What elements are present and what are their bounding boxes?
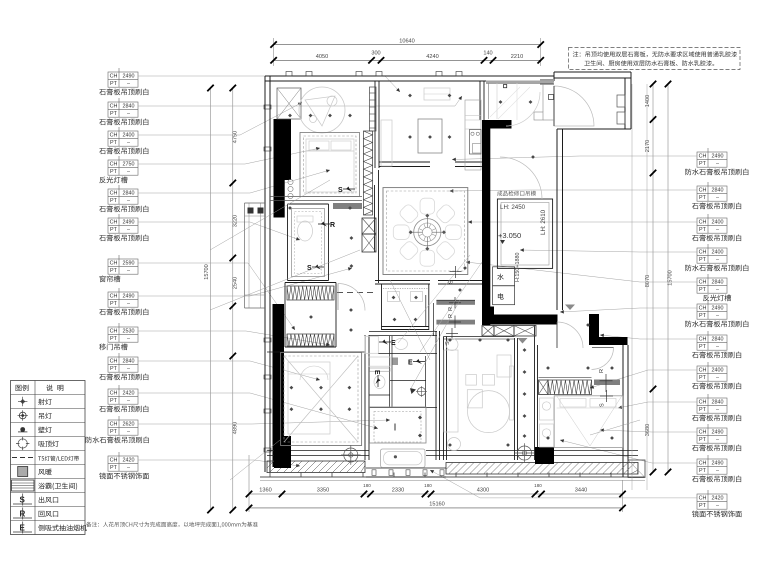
legend symbol air outlet S 出风口: [13, 494, 32, 506]
legend symbol fan heater 风暖: [18, 467, 28, 477]
level triangle corridor: [565, 305, 575, 311]
ceiling tray bedroom1: [300, 133, 360, 197]
svg-text:–: –: [716, 161, 719, 167]
door arc master bath: [592, 348, 614, 370]
svg-text:2490: 2490: [123, 294, 135, 300]
svg-text:2840: 2840: [123, 191, 135, 197]
svg-text:–: –: [127, 169, 130, 175]
svg-text:2490: 2490: [123, 74, 135, 80]
svg-text:E: E: [408, 360, 413, 367]
level triangle hall: [518, 338, 528, 344]
callout right R3 CH 2400 石膏板吊顶刷白: [468, 214, 741, 241]
wall bedroom1/kitchen partition: [375, 81, 379, 168]
svg-text:–: –: [716, 407, 719, 413]
svg-text:CH: CH: [110, 133, 118, 139]
downlights corridor south: [523, 348, 527, 438]
svg-text:PT: PT: [110, 336, 118, 342]
svg-text:2490: 2490: [712, 306, 724, 312]
svg-text:S: S: [338, 187, 343, 194]
fan symbol bath2: [410, 386, 427, 397]
svg-text:–: –: [716, 227, 719, 233]
callout right R9 CH 2840 石膏板吊顶刷白: [618, 394, 741, 421]
svg-text:CH: CH: [699, 400, 707, 406]
svg-text:2750: 2750: [123, 162, 135, 168]
svg-text:3350: 3350: [317, 488, 329, 494]
svg-text:–: –: [716, 195, 719, 201]
utility shafts water electric: [493, 252, 521, 304]
beam gray corridor: [333, 203, 362, 209]
foyer cabinets and door: [489, 83, 555, 126]
dimension left total 15700: [204, 85, 214, 513]
svg-text:PT: PT: [699, 503, 707, 509]
air vent S dining corner: [449, 266, 462, 284]
svg-text:2400: 2400: [712, 220, 724, 226]
shower room with levels: [497, 191, 552, 269]
callout right R7 CH 2840 石膏板吊顶刷白: [600, 331, 741, 358]
svg-text:2490: 2490: [712, 430, 724, 436]
svg-text:–: –: [127, 227, 130, 233]
svg-text:–: –: [716, 503, 719, 509]
callout left L1 CH 2490 石膏板吊顶刷白: [99, 68, 400, 95]
svg-text:E: E: [373, 370, 380, 375]
wall corridor/dining partition: [375, 170, 379, 283]
svg-text:PT: PT: [699, 313, 707, 319]
wall poche left upper: [274, 119, 292, 218]
downlights master: [546, 323, 614, 440]
note box ceiling material note: [569, 48, 741, 70]
downlights kitchen: [408, 94, 451, 139]
svg-text:R: R: [330, 222, 335, 229]
downlight cloakroom: [309, 315, 313, 319]
column xbox corridor a: [362, 218, 376, 234]
wall kitchen/foyer partition: [480, 81, 484, 120]
bed bedroom1: [306, 139, 354, 192]
svg-text:–: –: [127, 301, 130, 307]
wardrobe hatch corridor closet: [364, 131, 373, 215]
svg-text:S: S: [600, 403, 606, 407]
svg-text:CH: CH: [699, 461, 707, 467]
air outlet S bath1: [307, 265, 324, 273]
svg-text:–: –: [716, 468, 719, 474]
plumbing stack circles bath1: [288, 179, 293, 198]
downlights bedroom2: [290, 386, 352, 411]
svg-text:–: –: [127, 198, 130, 204]
wall outer right master: [623, 345, 628, 477]
svg-text:180: 180: [363, 483, 371, 488]
svg-text:CH: CH: [110, 391, 118, 397]
svg-text:CH: CH: [699, 430, 707, 436]
svg-text:–: –: [127, 465, 130, 471]
svg-text:2400: 2400: [123, 133, 135, 139]
svg-text:–: –: [716, 437, 719, 443]
svg-text:+3.050: +3.050: [498, 231, 521, 240]
balcony hatch left: [267, 461, 365, 473]
svg-text:PT: PT: [110, 268, 118, 274]
svg-text:PT: PT: [110, 429, 118, 435]
svg-text:PT: PT: [110, 398, 118, 404]
kitchen counters and tray: [381, 88, 481, 170]
svg-text:180: 180: [534, 483, 542, 488]
svg-text:2540: 2540: [233, 277, 239, 289]
bed bedroom2: [288, 362, 330, 434]
svg-text:CH: CH: [110, 162, 118, 168]
ceiling fan corridor: [515, 443, 535, 463]
dimension right segments 1400/2170/8070/3680: [645, 81, 656, 475]
svg-text:2490: 2490: [712, 461, 724, 467]
svg-text:PT: PT: [699, 375, 707, 381]
downlights foyer: [499, 100, 535, 159]
callout left L11 CH 2420 石膏板吊顶刷白: [99, 385, 378, 429]
callout right R5 CH 2840 反光灯槽: [466, 261, 731, 302]
callout right R10 CH 2490 石膏板吊顶刷白: [600, 424, 741, 451]
column xbox corridor b: [362, 234, 376, 252]
column xbox top-left: [277, 88, 301, 119]
downlights bedroom1: [288, 114, 352, 210]
svg-text:–: –: [127, 336, 130, 342]
svg-text:CH: CH: [699, 368, 707, 374]
svg-text:PT: PT: [110, 81, 118, 87]
legend symbol spotlight 射灯: [18, 397, 27, 406]
dimension bottom segments 1360/3350/2330/4300/3440: [246, 455, 699, 512]
svg-text:PT: PT: [110, 140, 118, 146]
ceiling fan decor bedroom1: [299, 87, 345, 133]
callout left L7 CH 2590 窗帘槽: [100, 255, 295, 330]
svg-text:–: –: [716, 375, 719, 381]
extension line right: [632, 84, 647, 490]
legend symbol wall light 壁灯: [18, 427, 27, 432]
air vent gray bar hall lower: [436, 314, 475, 328]
svg-text:15700: 15700: [668, 270, 674, 286]
svg-text:PT: PT: [699, 437, 707, 443]
legend label 吊灯: [39, 413, 52, 419]
bath2 fixtures: [365, 336, 408, 388]
svg-text:140: 140: [483, 51, 492, 57]
wall kitchen bottom: [379, 162, 482, 167]
callout left L4 CH 2750 反光灯槽: [99, 147, 320, 183]
dimension right total 15700: [665, 81, 674, 475]
svg-text:300: 300: [371, 51, 380, 57]
wardrobe hatch master: [548, 380, 592, 395]
air vents master R S: [599, 369, 613, 407]
legend label 出风口: [39, 497, 58, 503]
svg-text:CH: CH: [699, 337, 707, 343]
balcony middle bay: [366, 468, 446, 477]
svg-text:8070: 8070: [645, 275, 651, 287]
svg-text:PT: PT: [110, 465, 118, 471]
svg-text:–: –: [127, 140, 130, 146]
callout left L3 CH 2400 石膏板吊顶刷白: [99, 103, 302, 155]
svg-text:–: –: [127, 81, 130, 87]
svg-text:CH: CH: [699, 188, 707, 194]
svg-text:CH: CH: [699, 250, 707, 256]
air vent gray bar hall upper: [436, 297, 475, 311]
svg-text:PT: PT: [699, 407, 707, 413]
callout right R11 CH 2490 石膏板吊顶刷白: [560, 439, 741, 482]
lobby pilasters: [617, 95, 625, 124]
remark note bottom: [86, 522, 258, 528]
callout left L2 CH 2840 石膏板吊顶刷白: [99, 96, 462, 125]
callout right R1 CH 2490 防水石膏板吊顶刷白: [452, 148, 748, 175]
svg-text:15700: 15700: [204, 264, 210, 280]
ceiling tray bath1: [292, 209, 325, 277]
legend label 射灯: [38, 399, 52, 405]
svg-text:2490: 2490: [123, 220, 135, 226]
svg-text:2330: 2330: [392, 488, 404, 494]
svg-text:CH: CH: [110, 458, 118, 464]
column xbox master wardrobe: [539, 380, 549, 395]
wall entrance lobby: [540, 72, 631, 129]
svg-text:3220: 3220: [233, 215, 239, 227]
svg-text:PT: PT: [699, 257, 707, 263]
window bay detail left: [245, 203, 266, 308]
callout right R4 CH 2400 防水石膏板吊顶刷白: [520, 244, 748, 271]
svg-text:2840: 2840: [712, 400, 724, 406]
wall living room west and top: [434, 303, 515, 460]
svg-text:2210: 2210: [511, 54, 523, 60]
svg-text:–: –: [716, 313, 719, 319]
wall poche bottom block right: [535, 447, 554, 464]
sliding door dashed corridor: [337, 292, 376, 294]
svg-text:–: –: [127, 429, 130, 435]
svg-text:2840: 2840: [123, 104, 135, 110]
wall interior bottom: [267, 451, 638, 456]
callout left L12 CH 2620 防水石膏板吊顶刷白: [86, 416, 390, 443]
legend symbol pendant light 吊灯: [18, 410, 28, 420]
wall poche left bottom block overlay: [274, 436, 291, 468]
svg-text:CH: CH: [110, 261, 118, 267]
svg-text:2420: 2420: [712, 496, 724, 502]
svg-text:10640: 10640: [399, 39, 415, 45]
svg-text:2590: 2590: [123, 261, 135, 267]
balcony outer edge: [260, 473, 645, 481]
svg-text:LH: 2610: LH: 2610: [540, 209, 547, 235]
svg-text:2840: 2840: [712, 280, 724, 286]
svg-text:4750: 4750: [233, 131, 239, 143]
svg-text:2420: 2420: [123, 458, 135, 464]
wall poche master step: [589, 314, 628, 345]
bed master bedroom: [554, 396, 623, 448]
svg-text:2420: 2420: [123, 391, 135, 397]
svg-text:CH: CH: [699, 496, 707, 502]
closet xbox entry strip: [482, 326, 536, 337]
balcony hatch right: [446, 463, 638, 475]
svg-text:PT: PT: [110, 227, 118, 233]
svg-text:CH: CH: [699, 280, 707, 286]
callout left L10 CH 2840 石膏板吊顶刷白: [99, 353, 320, 381]
air vent S hall: [445, 328, 458, 345]
svg-text:4050: 4050: [316, 54, 328, 60]
dining table chandelier decor: [393, 198, 461, 266]
downlights corridor: [349, 236, 467, 332]
wall poche left lower: [273, 304, 285, 467]
legend symbol T5/LED strip dashed line: [12, 457, 33, 459]
wall cloakroom enclosure: [285, 283, 336, 348]
legend label 侧吸式抽油烟机: [38, 525, 87, 531]
svg-text:CH: CH: [110, 74, 118, 80]
callout left L9 CH 2530 移门吊槽: [99, 323, 330, 350]
svg-text:2490: 2490: [712, 154, 724, 160]
wall living/corridor partitions: [515, 325, 538, 460]
svg-text:PT: PT: [699, 161, 707, 167]
svg-text:CH: CH: [110, 220, 118, 226]
svg-text:PT: PT: [110, 111, 118, 117]
svg-text:–: –: [716, 287, 719, 293]
svg-text:CH: CH: [110, 104, 118, 110]
svg-text:CH: CH: [110, 191, 118, 197]
exhaust E bath2 c: [373, 370, 381, 387]
door arc shower room: [500, 157, 542, 199]
legend label 风暖: [38, 469, 52, 475]
legend label T5灯管/LED灯带: [38, 456, 79, 462]
callout right R8 CH 2400 石膏板吊顶刷白: [590, 362, 741, 389]
svg-text:CH: CH: [699, 220, 707, 226]
wall bedroom1 bottom sliding door trough: [270, 197, 362, 201]
svg-text:–: –: [127, 268, 130, 274]
svg-text:–: –: [716, 344, 719, 350]
svg-text:E: E: [391, 340, 396, 347]
living room furniture: [444, 339, 514, 451]
legend symbol ceiling light 吸顶灯: [16, 437, 29, 450]
callout right R12 CH 2420 镜面不锈钢饰面: [430, 470, 742, 517]
callout left L13 CH 2420 镜面不锈钢饰面: [99, 452, 300, 479]
balcony end pier right: [628, 460, 645, 478]
ceiling fan bedroom2: [341, 445, 361, 465]
svg-text:PT: PT: [699, 468, 707, 474]
wall study room: [382, 284, 429, 330]
callout left L8 CH 2490 石膏板吊顶刷白: [99, 267, 352, 315]
svg-text:R: R: [599, 369, 605, 373]
study fixtures and downlights: [383, 289, 428, 322]
wall poche entry C-shape: [482, 120, 558, 325]
air outlet S corridor top: [338, 187, 355, 195]
svg-text:CH: CH: [110, 294, 118, 300]
svg-text:PT: PT: [699, 287, 707, 293]
svg-text:2840: 2840: [712, 337, 724, 343]
svg-text:–: –: [716, 257, 719, 263]
svg-text:180: 180: [424, 483, 432, 488]
callout right R2 CH 2840 石膏板吊顶刷白: [450, 182, 742, 209]
legend label 壁灯: [38, 427, 52, 433]
svg-text:2620: 2620: [123, 422, 135, 428]
beam gray master: [594, 380, 620, 386]
svg-text:2400: 2400: [712, 368, 724, 374]
svg-text:4890: 4890: [233, 422, 239, 434]
ceiling tray bedroom2: [281, 353, 362, 446]
wall bedroom2 right: [267, 335, 369, 460]
bath2 tray and tub: [370, 407, 427, 467]
exhaust E bath2 b: [408, 359, 425, 367]
svg-text:2840: 2840: [712, 188, 724, 194]
dimension bottom total 15160: [246, 502, 626, 512]
callout left L6 CH 2490 石膏板吊顶刷白: [99, 214, 300, 241]
legend header 图例/说明: [16, 385, 64, 391]
callout right R6 CH 2490 防水石膏板吊顶刷白: [560, 300, 748, 327]
svg-text:PT: PT: [110, 198, 118, 204]
svg-text:2170: 2170: [645, 140, 651, 152]
wall right mid section: [557, 129, 631, 310]
wall outer top: [265, 72, 554, 82]
nightstands master: [539, 378, 592, 448]
svg-text:CH: CH: [699, 154, 707, 160]
svg-text:PT: PT: [110, 169, 118, 175]
dimension top total 10640: [270, 38, 544, 66]
svg-text:4300: 4300: [477, 488, 489, 494]
door arc entrance: [554, 86, 594, 126]
svg-text:H:150+1880: H:150+1880: [515, 252, 521, 282]
wall bath1 enclosure: [288, 204, 329, 281]
door arc bedroom2: [338, 284, 365, 311]
svg-text:2530: 2530: [123, 329, 135, 335]
svg-text:4240: 4240: [426, 54, 438, 60]
legend symbol air return R 回风口: [13, 508, 32, 520]
svg-text:1360: 1360: [259, 488, 271, 494]
ceiling tray dining: [383, 188, 468, 275]
cabinet shelving kitchen wall: [370, 87, 377, 131]
legend table frame: [11, 381, 86, 535]
wall bath2 block: [369, 331, 440, 460]
legend label 回风口: [39, 511, 59, 517]
svg-text:3440: 3440: [575, 488, 587, 494]
door arc master entry: [557, 322, 583, 348]
exhaust E bath2 a: [379, 340, 396, 348]
dimension left segments 4750/3220/2540/4890: [230, 85, 239, 513]
legend label 浴霸(卫生间): [38, 483, 77, 490]
svg-text:1400: 1400: [645, 95, 651, 107]
svg-text:PT: PT: [699, 344, 707, 350]
dimension top segments 4050/300/4240/140/2210: [270, 51, 544, 64]
legend symbol range hood E 侧吸式抽油烟机: [13, 522, 32, 534]
svg-text:2400: 2400: [712, 250, 724, 256]
svg-text:PT: PT: [699, 227, 707, 233]
svg-text:–: –: [127, 366, 130, 372]
callout left L5 CH 2840 石膏板吊顶刷白: [99, 169, 330, 212]
svg-text:3680: 3680: [645, 424, 651, 436]
svg-text:PT: PT: [110, 301, 118, 307]
wall outer left: [264, 76, 271, 472]
svg-text:2840: 2840: [123, 359, 135, 365]
wardrobe hatch cloakroom bottom: [287, 334, 334, 346]
svg-text:CH: CH: [110, 329, 118, 335]
svg-text:S: S: [449, 280, 455, 284]
legend label 吸顶灯: [39, 441, 59, 447]
wall poche left bottom block: [274, 436, 291, 468]
svg-text:LH: 2450: LH: 2450: [500, 204, 526, 211]
svg-text:PT: PT: [110, 366, 118, 372]
svg-text:PT: PT: [699, 195, 707, 201]
wall poche bottom block right overlay: [535, 447, 554, 464]
leader lines construction: [210, 180, 640, 480]
legend symbol bath unit 浴霸: [12, 480, 35, 491]
svg-text:CH: CH: [110, 359, 118, 365]
foyer lintel gray: [486, 81, 554, 84]
svg-text:–: –: [127, 398, 130, 404]
air return R bath1: [318, 222, 335, 230]
downlights living: [448, 338, 510, 447]
svg-text:–: –: [127, 111, 130, 117]
wardrobe hatch cloakroom top: [287, 286, 334, 300]
svg-text:CH: CH: [110, 422, 118, 428]
svg-text:15160: 15160: [429, 502, 445, 508]
wall dining bottom: [375, 281, 482, 285]
svg-text:CH: CH: [699, 306, 707, 312]
